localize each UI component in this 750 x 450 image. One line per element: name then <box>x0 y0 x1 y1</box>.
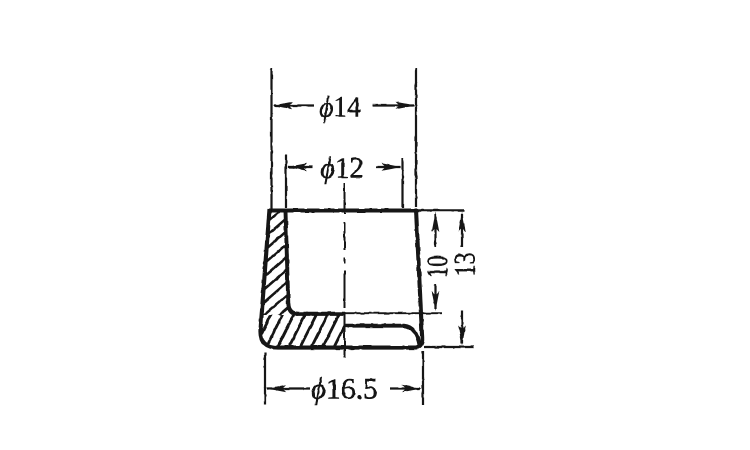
dimension phi16.5: extension lines <box>265 351 423 405</box>
dimension phi14: left arrow <box>273 102 315 110</box>
extension line: top right (for 10 and 13) <box>418 209 464 212</box>
dimension phi12: right arrow <box>376 163 402 171</box>
dimension phi16.5: left arrow <box>267 385 311 393</box>
centerline (vertical axis, dash-dot) <box>344 183 346 358</box>
svg-text:ϕ12: ϕ12 <box>320 152 363 184</box>
dimension phi12: extension lines <box>286 155 403 208</box>
extension line: inner floor level to the right (for 10) <box>345 312 442 314</box>
cap inner cavity: left inner wall with floor fillet <box>286 211 299 314</box>
svg-text:ϕ16.5: ϕ16.5 <box>311 373 378 405</box>
cap outer profile: top edge <box>269 208 417 212</box>
extension line: bottom right (for 13) <box>424 346 474 348</box>
dimension 10: top arrow <box>432 212 440 247</box>
dimension 13: top arrow <box>458 212 466 247</box>
svg-text:ϕ14: ϕ14 <box>319 92 361 124</box>
dimension 13: bottom arrow <box>458 310 466 346</box>
hatching: section hatch of left wall (41 deg) <box>256 183 297 335</box>
cap outer profile: left wall, bottom, right wall <box>260 209 422 348</box>
hatching: section hatch of floor (63 deg) <box>241 311 352 352</box>
dimension 10: bottom arrow <box>432 284 440 311</box>
dimension phi12: left arrow <box>287 163 313 171</box>
cap inner floor line (sectioned half, thick) <box>296 312 345 316</box>
dimension phi14: extension lines <box>272 68 417 209</box>
inner bottom surface line (right half) with corner radius <box>344 326 420 346</box>
svg-text:13: 13 <box>448 253 481 277</box>
dimension phi16.5: right arrow <box>390 385 422 393</box>
dimension phi14: right arrow <box>373 102 416 110</box>
